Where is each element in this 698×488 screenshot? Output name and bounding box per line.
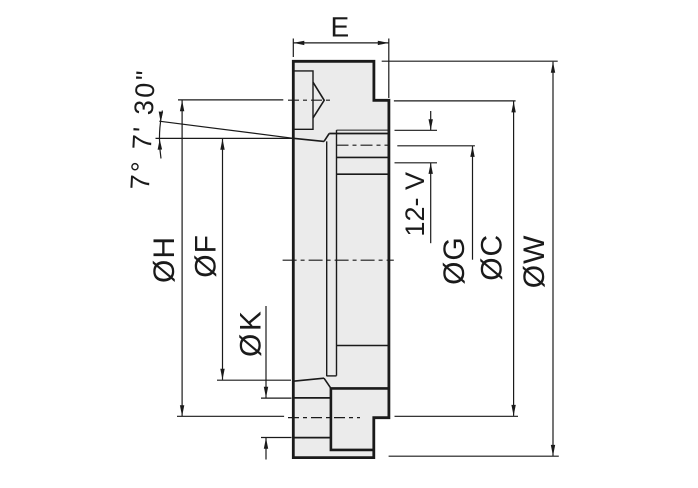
- dimension diameter G: [397, 146, 475, 285]
- svg-text:ØW: ØW: [518, 235, 551, 289]
- dimension E: [293, 11, 389, 98]
- thread crest line top: [337, 129, 389, 131]
- taper chamfer bottom: [324, 378, 331, 388]
- tapped hole bottom line: [337, 156, 389, 158]
- svg-text:ØG: ØG: [438, 236, 471, 285]
- dimension diameter K: [234, 306, 291, 460]
- dimension diameter H: [148, 100, 184, 416]
- bolt hole centerline bottom (dash-dot): [177, 416, 360, 417]
- svg-text:ØH: ØH: [148, 236, 181, 283]
- main axis centerline (dash-dot): [283, 259, 394, 261]
- relief groove vertical left: [326, 141, 328, 376]
- chuck locating recess outline: [331, 388, 389, 450]
- svg-text:12- V: 12- V: [400, 172, 430, 237]
- cam hole centerline (dash-dot): [178, 99, 332, 101]
- taper surface bottom: [293, 378, 324, 381]
- taper surface top: [293, 138, 324, 141]
- front face step line: [337, 173, 389, 175]
- svg-text:E: E: [330, 11, 349, 42]
- pilot bore rectangle (cam hole): [293, 71, 313, 129]
- flange body outline: [293, 61, 389, 457]
- svg-text:ØK: ØK: [234, 309, 267, 357]
- svg-text:7° 7' 30": 7° 7' 30": [125, 68, 161, 191]
- center point triangle in cam hole: [313, 82, 324, 118]
- bolt hole top edge bottom half: [293, 397, 331, 399]
- taper chamfer top: [324, 134, 329, 142]
- flange face vertical: [336, 130, 338, 376]
- bolt hole bottom edge bottom half: [293, 437, 331, 439]
- thread root line top: [329, 133, 389, 135]
- dimension 12-V tapped holes: [395, 111, 438, 243]
- groove bottom stub: [327, 375, 337, 377]
- svg-text:ØC: ØC: [476, 234, 509, 281]
- angle dimension 7 deg 7 min 30 sec: [125, 68, 293, 191]
- tapped hole V centerline (dash-dot): [337, 144, 391, 146]
- dimension diameter C: [394, 101, 518, 416]
- dimension diameter F: [190, 139, 292, 381]
- front face lower step line: [337, 345, 389, 347]
- svg-text:ØF: ØF: [190, 234, 223, 278]
- dimension diameter W: [382, 61, 559, 456]
